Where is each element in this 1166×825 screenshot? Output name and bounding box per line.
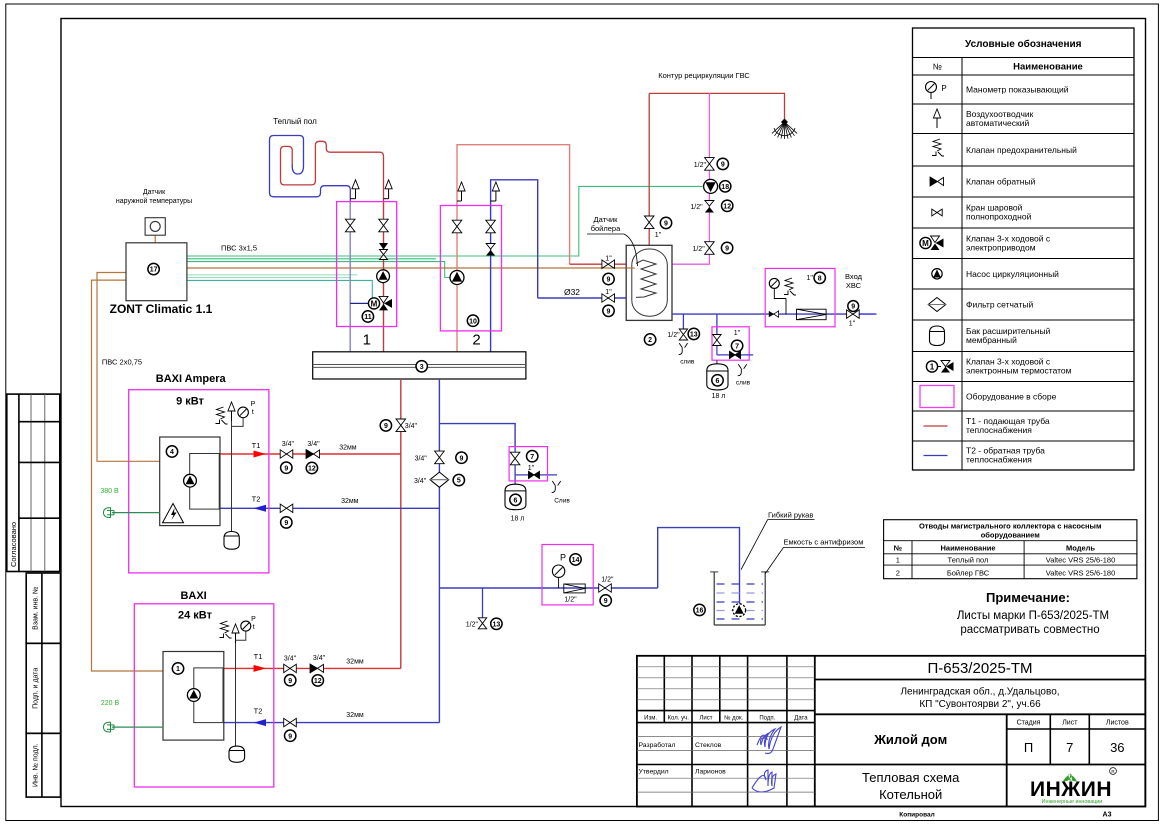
svg-text:13: 13	[493, 621, 501, 628]
svg-text:220 В: 220 В	[101, 700, 120, 707]
svg-text:электроприводом: электроприводом	[966, 242, 1036, 252]
svg-text:Насос циркуляционный: Насос циркуляционный	[966, 269, 1059, 279]
svg-text:BAXI Ampera: BAXI Ampera	[156, 373, 227, 385]
svg-text:4: 4	[170, 449, 174, 456]
svg-text:КП "Сувонтоярви 2", уч.66: КП "Сувонтоярви 2", уч.66	[919, 699, 1041, 710]
svg-text:12: 12	[723, 203, 731, 210]
svg-text:2: 2	[896, 569, 900, 578]
svg-text:9: 9	[288, 733, 292, 740]
svg-text:1: 1	[363, 332, 371, 349]
svg-text:12: 12	[314, 678, 322, 685]
svg-text:Лист: Лист	[1062, 720, 1078, 727]
svg-text:8: 8	[818, 275, 822, 282]
svg-text:Клапан предохранительный: Клапан предохранительный	[966, 145, 1077, 155]
svg-text:P: P	[251, 401, 256, 408]
svg-text:№: №	[933, 62, 942, 72]
svg-text:M: M	[922, 239, 929, 248]
svg-text:9: 9	[604, 598, 608, 605]
svg-text:1": 1"	[605, 289, 612, 296]
svg-text:P: P	[251, 616, 256, 623]
svg-text:Т1: Т1	[252, 441, 261, 450]
svg-text:Т1: Т1	[254, 652, 263, 661]
svg-text:12: 12	[308, 466, 316, 473]
svg-text:1/2": 1/2"	[601, 577, 614, 584]
svg-text:16: 16	[696, 608, 704, 615]
svg-text:1": 1"	[655, 232, 662, 239]
svg-text:36: 36	[1110, 740, 1124, 755]
svg-text:Инженерные инновации: Инженерные инновации	[1042, 799, 1103, 805]
svg-text:ПВС 2х0,75: ПВС 2х0,75	[102, 358, 142, 367]
svg-text:Контур рециркуляции ГВС: Контур рециркуляции ГВС	[658, 71, 750, 80]
svg-text:3/4": 3/4"	[282, 441, 295, 448]
svg-text:Примечание:: Примечание:	[986, 590, 1070, 605]
svg-text:3/4": 3/4"	[313, 655, 326, 662]
svg-text:слив: слив	[736, 380, 751, 387]
svg-text:32мм: 32мм	[341, 498, 359, 505]
svg-text:теплоснабжения: теплоснабжения	[966, 455, 1032, 465]
svg-text:Котельной: Котельной	[879, 787, 942, 802]
svg-text:9: 9	[721, 162, 725, 169]
svg-text:1: 1	[930, 363, 935, 372]
svg-text:теплоснабжения: теплоснабжения	[966, 425, 1032, 435]
svg-text:Модель: Модель	[1066, 544, 1095, 553]
svg-text:9: 9	[384, 423, 388, 430]
svg-text:Теплый пол: Теплый пол	[273, 117, 317, 126]
svg-text:автоматический: автоматический	[966, 118, 1029, 128]
svg-text:Листов: Листов	[1106, 720, 1129, 727]
svg-text:32мм: 32мм	[339, 445, 357, 452]
svg-text:9: 9	[664, 221, 668, 228]
svg-text:Копировал: Копировал	[899, 812, 934, 819]
svg-text:18: 18	[721, 184, 729, 191]
svg-text:9: 9	[851, 304, 855, 311]
svg-text:3/4": 3/4"	[284, 656, 297, 663]
svg-text:3: 3	[420, 364, 424, 371]
svg-text:1/2": 1/2"	[692, 246, 705, 253]
svg-text:M: M	[371, 299, 378, 308]
svg-text:Ларионов: Ларионов	[695, 769, 726, 776]
svg-text:мембранный: мембранный	[966, 335, 1017, 345]
svg-text:Стеклов: Стеклов	[695, 742, 722, 749]
svg-text:Ленинградская обл., д.Удальцов: Ленинградская обл., д.Удальцово,	[900, 686, 1059, 698]
svg-text:Датчик: Датчик	[594, 215, 619, 224]
svg-text:Бойлер ГВС: Бойлер ГВС	[947, 569, 990, 578]
svg-text:6: 6	[514, 497, 518, 504]
svg-text:9: 9	[607, 308, 611, 315]
svg-text:Слив: Слив	[554, 498, 570, 505]
svg-text:6: 6	[716, 378, 720, 385]
svg-text:1": 1"	[807, 275, 814, 282]
svg-text:9 кВт: 9 кВт	[176, 396, 204, 408]
svg-text:ИНЖИН: ИНЖИН	[1030, 778, 1112, 801]
svg-text:2: 2	[648, 337, 652, 344]
svg-text:9: 9	[284, 465, 288, 472]
svg-text:1: 1	[176, 666, 180, 673]
svg-text:5: 5	[457, 478, 461, 485]
svg-text:Клапан обратный: Клапан обратный	[966, 177, 1036, 187]
svg-text:полнопроходной: полнопроходной	[966, 212, 1032, 222]
svg-text:3/4": 3/4"	[414, 478, 427, 485]
svg-text:Гибкий рукав: Гибкий рукав	[768, 511, 813, 520]
svg-text:10: 10	[469, 318, 477, 325]
svg-text:П-653/2025-ТМ: П-653/2025-ТМ	[928, 660, 1033, 677]
svg-text:1": 1"	[849, 321, 856, 328]
svg-text:3/4": 3/4"	[415, 456, 428, 463]
svg-text:Ø32: Ø32	[564, 287, 580, 297]
svg-text:18 л: 18 л	[511, 516, 525, 523]
svg-text:9: 9	[288, 678, 292, 685]
svg-text:Оборудование в сборе: Оборудование в сборе	[966, 391, 1057, 401]
svg-text:7: 7	[735, 343, 739, 350]
svg-text:7: 7	[1066, 740, 1073, 755]
svg-text:Отводы магистрального коллекто: Отводы магистрального коллектора с насос…	[919, 522, 1102, 531]
svg-text:Наименование: Наименование	[940, 544, 995, 553]
svg-text:Р: Р	[941, 84, 946, 93]
svg-text:1/2": 1/2"	[466, 621, 479, 628]
svg-text:24 кВт: 24 кВт	[178, 610, 213, 622]
svg-text:9: 9	[284, 520, 288, 527]
svg-text:11: 11	[364, 314, 372, 321]
svg-text:наружной температуры: наружной температуры	[116, 197, 192, 205]
svg-text:А3: А3	[1103, 812, 1112, 819]
svg-text:бойлера: бойлера	[591, 224, 621, 233]
svg-text:9: 9	[607, 277, 611, 284]
svg-text:Согласовано: Согласовано	[9, 522, 18, 567]
svg-text:рассматривать совместно: рассматривать совместно	[960, 624, 1099, 636]
svg-text:t: t	[252, 409, 254, 416]
svg-text:9: 9	[725, 246, 729, 253]
svg-text:Жилой дом: Жилой дом	[873, 732, 947, 747]
svg-text:№: №	[894, 544, 902, 553]
svg-text:Подп. и дата: Подп. и дата	[33, 668, 40, 709]
svg-text:Вход: Вход	[845, 272, 863, 281]
svg-text:Теплый пол: Теплый пол	[948, 556, 989, 565]
svg-text:14: 14	[572, 557, 580, 564]
svg-text:2: 2	[472, 332, 480, 349]
svg-text:3/4": 3/4"	[307, 441, 320, 448]
svg-text:17: 17	[150, 267, 158, 274]
svg-text:Фильтр сетчатый: Фильтр сетчатый	[966, 300, 1033, 310]
svg-text:Valtec VRS 25/6-180: Valtec VRS 25/6-180	[1046, 569, 1116, 578]
svg-text:18 л: 18 л	[712, 393, 726, 400]
svg-text:Разработал: Разработал	[639, 741, 676, 749]
svg-text:Листы марки П-653/2025-ТМ: Листы марки П-653/2025-ТМ	[957, 610, 1109, 622]
svg-text:оборудованием: оборудованием	[981, 531, 1040, 540]
svg-text:32мм: 32мм	[346, 659, 364, 666]
svg-text:№ док.: № док.	[724, 715, 744, 722]
svg-text:Подп.: Подп.	[759, 716, 775, 722]
svg-text:Инв. № подл.: Инв. № подл.	[33, 743, 40, 787]
svg-text:3/4": 3/4"	[405, 423, 418, 430]
svg-text:Изм.: Изм.	[644, 716, 657, 722]
svg-text:Стадия: Стадия	[1017, 720, 1041, 727]
svg-text:Дата: Дата	[794, 716, 808, 722]
svg-text:1": 1"	[528, 465, 535, 472]
svg-text:7: 7	[530, 454, 534, 461]
svg-text:Тепловая схема: Тепловая схема	[862, 770, 960, 785]
svg-text:380 В: 380 В	[100, 488, 119, 495]
svg-text:1": 1"	[605, 255, 612, 262]
svg-text:Взам. инв. №: Взам. инв. №	[33, 586, 40, 629]
svg-text:Р: Р	[560, 553, 566, 563]
svg-text:ХВС: ХВС	[846, 281, 862, 290]
svg-text:Условные обозначения: Условные обозначения	[965, 38, 1082, 50]
svg-text:Датчик: Датчик	[143, 189, 166, 196]
svg-text:Емкость с антифризом: Емкость с антифризом	[784, 538, 864, 547]
svg-text:ПВС 3х1,5: ПВС 3х1,5	[221, 244, 257, 253]
svg-text:П: П	[1024, 740, 1033, 755]
svg-text:Наименование: Наименование	[1013, 62, 1083, 73]
svg-text:ZONT Climatic 1.1: ZONT Climatic 1.1	[110, 302, 213, 316]
svg-text:Кол. уч.: Кол. уч.	[668, 716, 690, 722]
svg-text:1": 1"	[734, 330, 741, 337]
svg-text:Утвердил: Утвердил	[639, 769, 669, 776]
svg-text:1/2": 1/2"	[690, 204, 703, 211]
svg-text:1: 1	[896, 556, 900, 565]
svg-text:t: t	[253, 624, 255, 631]
svg-text:Манометр показывающий: Манометр показывающий	[966, 85, 1069, 95]
svg-text:Лист: Лист	[699, 716, 712, 722]
svg-text:1/2": 1/2"	[667, 332, 680, 339]
svg-text:Valtec VRS 25/6-180: Valtec VRS 25/6-180	[1046, 556, 1116, 565]
svg-text:слив: слив	[680, 359, 695, 366]
svg-text:1/2": 1/2"	[564, 597, 577, 604]
svg-text:1/2": 1/2"	[694, 162, 707, 169]
svg-text:32мм: 32мм	[346, 712, 364, 719]
svg-text:Т2: Т2	[254, 707, 263, 716]
svg-text:электронным термостатом: электронным термостатом	[966, 366, 1072, 376]
svg-text:13: 13	[690, 332, 698, 339]
svg-text:9: 9	[460, 455, 464, 462]
svg-text:Т2: Т2	[252, 495, 261, 504]
svg-text:BAXI: BAXI	[180, 590, 206, 602]
